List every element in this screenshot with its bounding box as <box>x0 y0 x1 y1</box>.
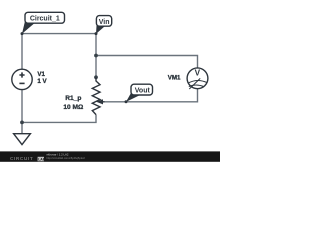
net label Vout <box>126 84 153 102</box>
svg-text:10 MΩ: 10 MΩ <box>63 104 84 111</box>
svg-text:1 V: 1 V <box>37 78 47 85</box>
node dot Vin corner <box>95 32 98 35</box>
wire top: node Circuit_1 corner to Vin corner <box>22 33 96 35</box>
svg-text:Vout: Vout <box>135 87 151 94</box>
svg-text:Circuit_1: Circuit_1 <box>30 16 60 23</box>
wire: top corner down to V1 plus terminal <box>21 34 23 70</box>
svg-text:VM1: VM1 <box>168 75 181 82</box>
node junction dot pot top <box>94 75 98 79</box>
node dot top-left corner <box>21 32 24 35</box>
wire bottom: ground junction to pot bottom <box>22 115 96 123</box>
svg-text:Vin: Vin <box>99 19 110 26</box>
node junction dot ground <box>20 121 24 125</box>
footer bar <box>0 151 220 161</box>
svg-text:http://circuitlab.com/c8y4bq5p: http://circuitlab.com/c8y4bq5pkx2 <box>47 156 86 160</box>
svg-text:LAB: LAB <box>38 157 46 161</box>
svg-text:CIRCUIT: CIRCUIT <box>10 156 33 162</box>
svg-text:V: V <box>195 69 201 78</box>
svg-text:ekhovar / 1.2 LA2: ekhovar / 1.2 LA2 <box>47 153 69 157</box>
net label Vin <box>96 16 112 34</box>
node junction dot Vin branch <box>94 54 98 58</box>
wire: V1 minus terminal down to ground junction <box>21 90 23 134</box>
footer logo CIRCUIT LAB <box>10 156 46 162</box>
svg-text:R1_p: R1_p <box>65 95 81 102</box>
wire: Vin junction right to voltmeter top <box>96 56 198 68</box>
voltage source V1 <box>12 69 32 89</box>
pot wiper arrowhead <box>96 99 103 104</box>
voltmeter VM1 <box>187 68 208 89</box>
node dot Vout anchor <box>125 100 128 103</box>
ground <box>14 134 31 145</box>
net label Circuit_1 <box>22 12 65 34</box>
wire: voltmeter bottom to pot wiper <box>104 89 198 102</box>
potentiometer R1_p <box>92 77 104 114</box>
wire: Vin corner down to pot top <box>95 34 97 78</box>
